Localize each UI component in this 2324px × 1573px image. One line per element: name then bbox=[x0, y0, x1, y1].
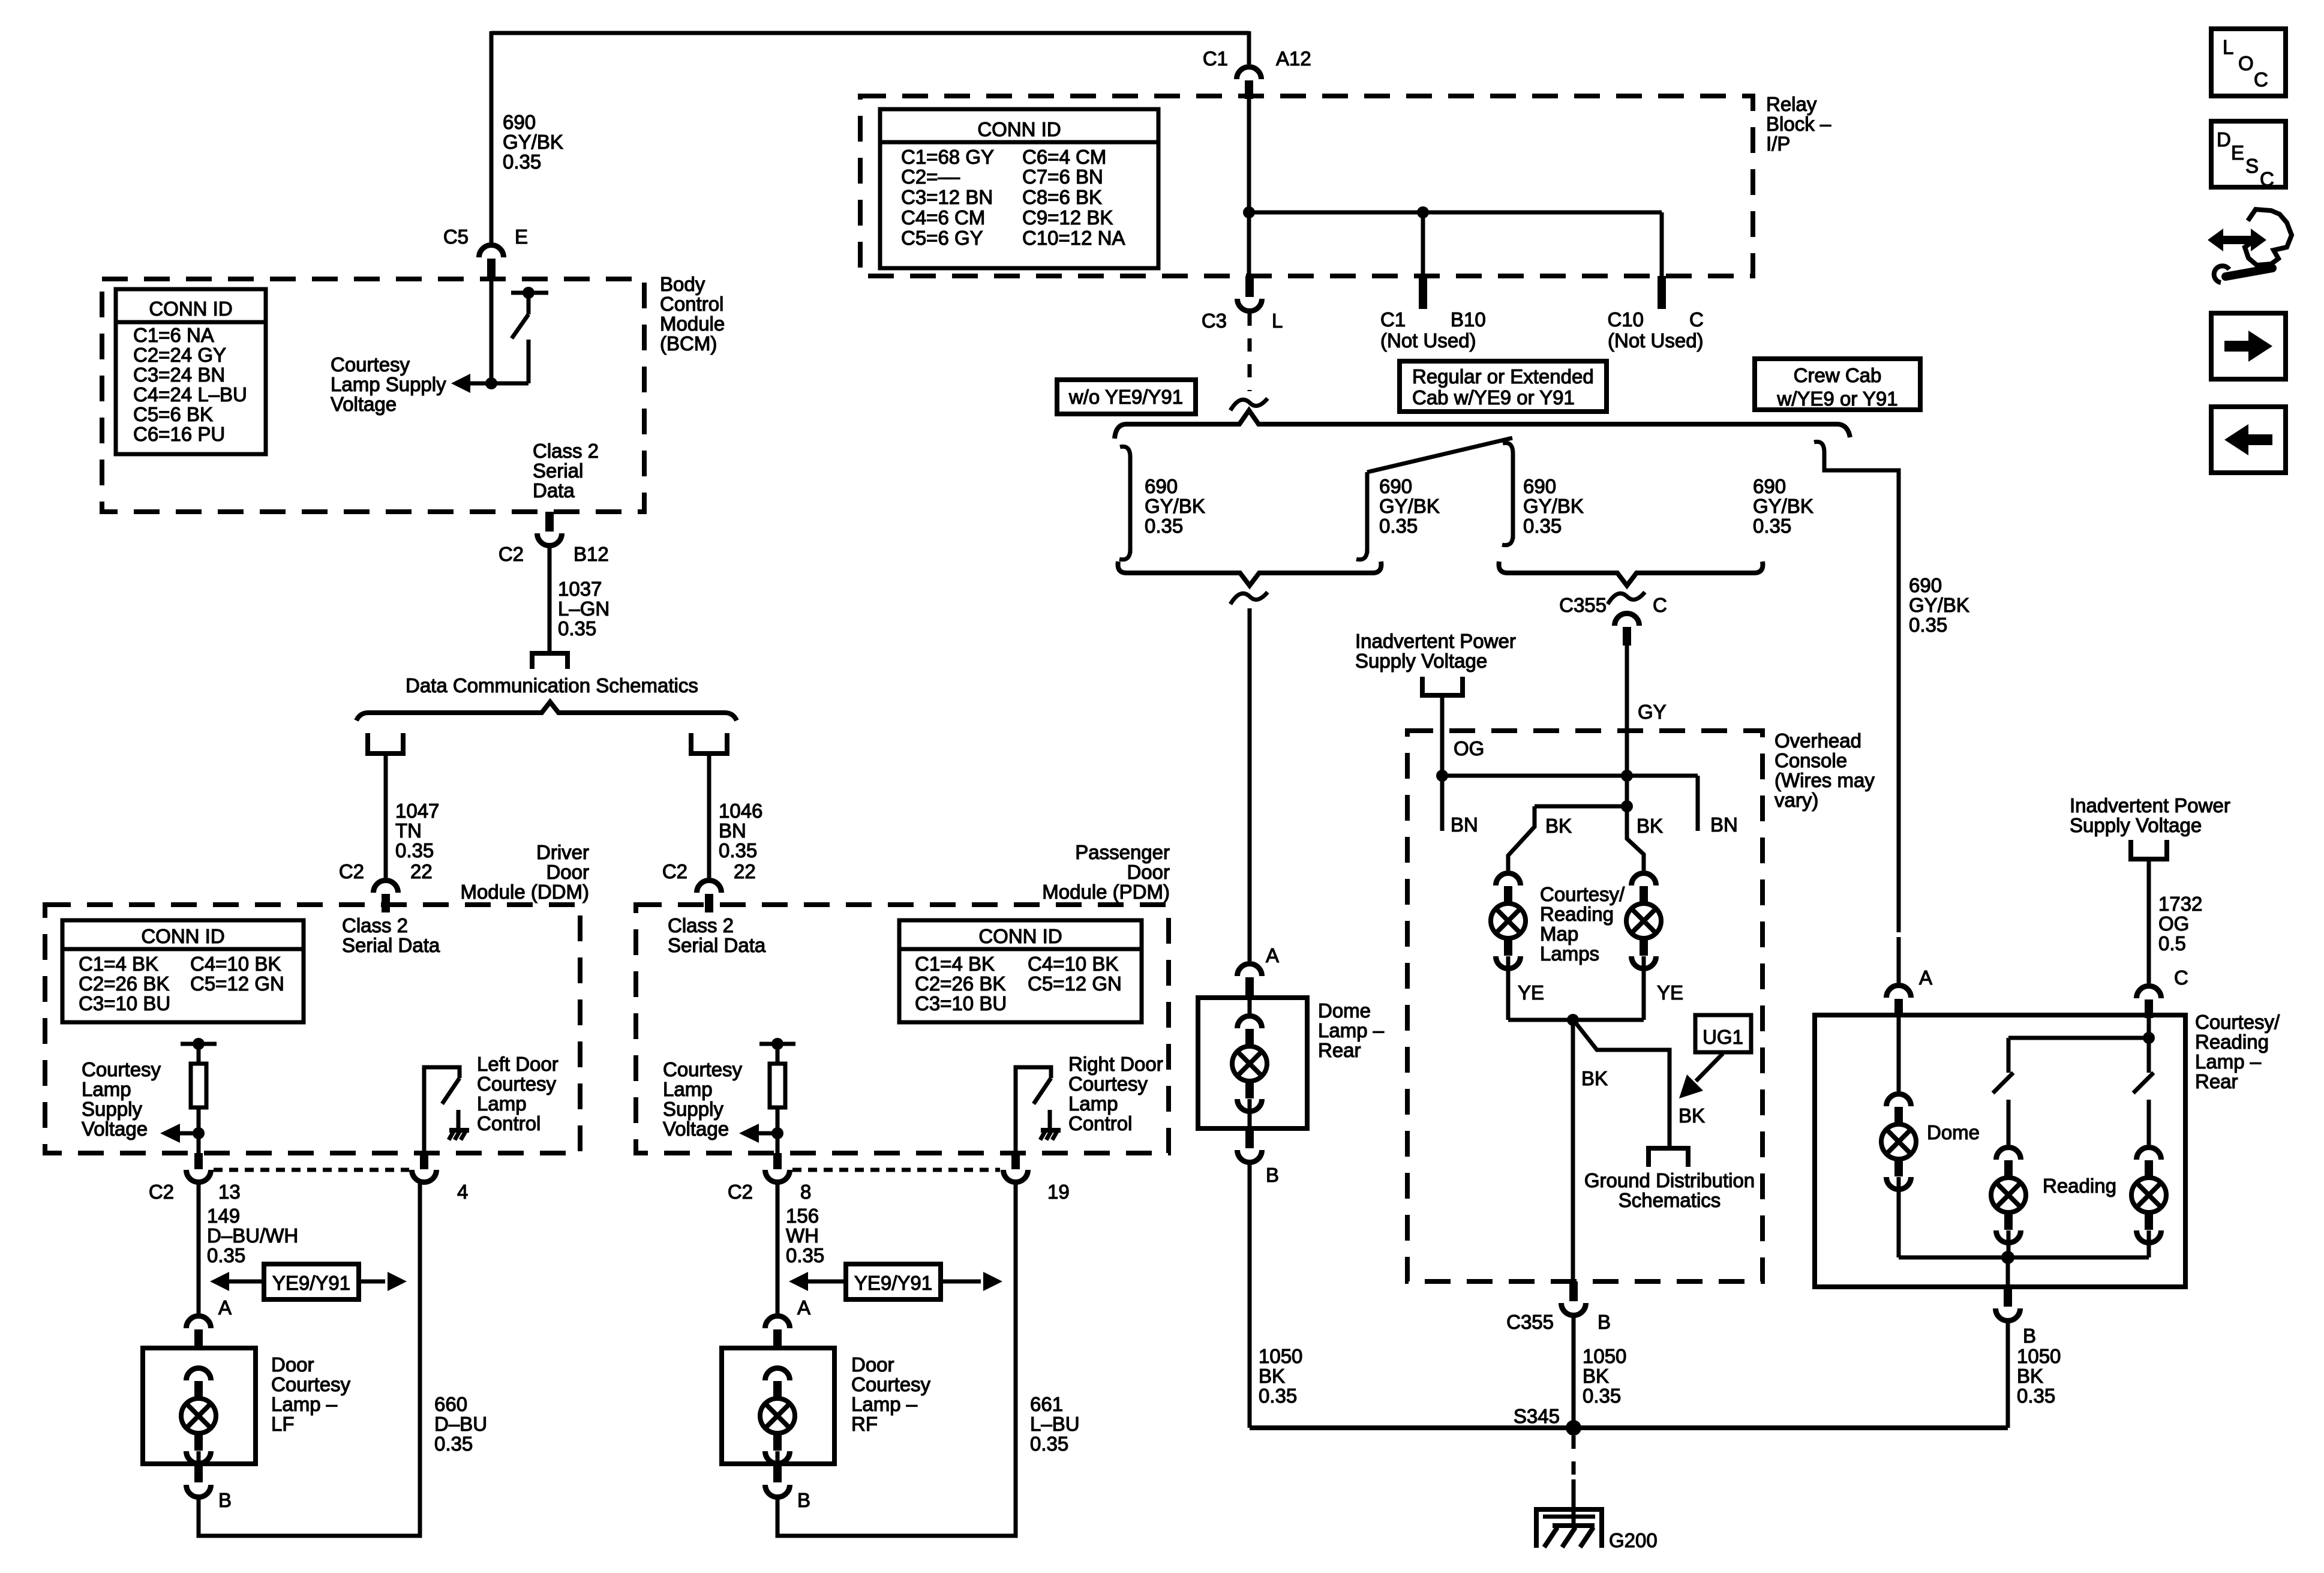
nav icon: DESC box bbox=[2211, 121, 2286, 187]
svg-text:LF: LF bbox=[271, 1413, 295, 1435]
svg-text:A12: A12 bbox=[1276, 47, 1311, 70]
option arrow YE9/Y91 (left) bbox=[264, 1264, 359, 1299]
PDM switch ground stub bbox=[1048, 1110, 1052, 1128]
svg-text:vary): vary) bbox=[1774, 789, 1818, 811]
junction node BK bbox=[1621, 800, 1633, 812]
svg-text:Voltage: Voltage bbox=[663, 1118, 729, 1140]
Door Courtesy Lamp RF box bbox=[722, 1348, 834, 1464]
junction node OG at GY bbox=[1621, 770, 1633, 782]
svg-text:13: 13 bbox=[218, 1181, 241, 1203]
brace: gather YE9 branches (right) bbox=[1499, 562, 1763, 586]
svg-text:L–GN: L–GN bbox=[558, 598, 609, 620]
wire: feed to dome lamp rear bbox=[1248, 608, 1252, 961]
wire GY into overhead console bbox=[1625, 646, 1629, 776]
svg-text:A: A bbox=[1266, 944, 1279, 966]
junction node rear return bbox=[2001, 1251, 2014, 1264]
connector C2 pin 13 (DDM exit) bbox=[194, 1153, 203, 1169]
svg-text:BK: BK bbox=[1679, 1104, 1705, 1127]
lamp: dome (rear unit) bbox=[1887, 1094, 1911, 1107]
svg-text:Passenger: Passenger bbox=[1075, 841, 1170, 863]
svg-text:C2=24 GY: C2=24 GY bbox=[133, 344, 226, 366]
svg-text:Door: Door bbox=[546, 861, 589, 883]
nav icon: next arrow box bbox=[2211, 313, 2286, 379]
svg-text:OG: OG bbox=[2158, 912, 2189, 935]
wire OG feed bbox=[1440, 695, 1445, 776]
svg-text:C355: C355 bbox=[1559, 594, 1607, 616]
svg-text:1046: 1046 bbox=[719, 800, 762, 822]
nav icon: wiring pigtail with arrows bbox=[2245, 209, 2292, 265]
wire: S345 ground bus bbox=[1250, 1425, 2008, 1430]
svg-text:A: A bbox=[1919, 966, 1932, 989]
svg-text:BK: BK bbox=[2017, 1365, 2043, 1387]
wire: relay block internal horizontal bbox=[1249, 211, 1662, 215]
svg-text:19: 19 bbox=[1047, 1181, 1070, 1203]
connector A (dome lamp rear) bbox=[1238, 964, 1262, 977]
junction node (C feed) bbox=[2143, 1032, 2155, 1044]
svg-text:CONN ID: CONN ID bbox=[141, 925, 224, 947]
branch 2 bottom hook bbox=[1356, 550, 1367, 560]
contact reading lamp 1 bbox=[2007, 1100, 2011, 1145]
svg-text:CONN ID: CONN ID bbox=[149, 298, 232, 320]
svg-text:Control: Control bbox=[477, 1112, 541, 1134]
bracket: from data schematics (left branch) bbox=[368, 733, 403, 754]
junction node at arrow bbox=[771, 1127, 783, 1139]
svg-text:(Not Used): (Not Used) bbox=[1608, 329, 1704, 352]
wire: OG bus bbox=[1442, 774, 1698, 778]
wire: BN stub right bbox=[1696, 776, 1700, 831]
svg-text:Courtesy: Courtesy bbox=[477, 1073, 557, 1095]
svg-text:0.35: 0.35 bbox=[395, 839, 434, 861]
svg-text:YE: YE bbox=[1657, 981, 1683, 1004]
lamp: dome rear bbox=[1238, 1016, 1262, 1029]
svg-text:S345: S345 bbox=[1514, 1405, 1560, 1427]
svg-text:BN: BN bbox=[1710, 813, 1738, 836]
svg-text:Lamp: Lamp bbox=[1068, 1092, 1118, 1115]
svg-text:Data: Data bbox=[533, 479, 575, 502]
svg-text:GY: GY bbox=[1638, 701, 1667, 723]
svg-text:0.35: 0.35 bbox=[1909, 614, 1947, 636]
resistor (PDM courtesy lamp driver) bbox=[770, 1064, 785, 1107]
connector C3 pin L (relay block exit) bbox=[1245, 276, 1254, 297]
svg-text:C: C bbox=[2254, 68, 2268, 91]
svg-text:Lamp –: Lamp – bbox=[1318, 1019, 1385, 1041]
svg-text:Rear: Rear bbox=[1318, 1039, 1361, 1061]
svg-text:Reading: Reading bbox=[1540, 903, 1614, 925]
svg-text:L–BU: L–BU bbox=[1030, 1413, 1080, 1435]
svg-text:Serial: Serial bbox=[533, 460, 583, 482]
svg-text:C4=10 BK: C4=10 BK bbox=[1028, 953, 1118, 975]
svg-text:Body: Body bbox=[660, 273, 705, 295]
ground G200 symbol bbox=[1536, 1509, 1602, 1548]
svg-text:Lamp –: Lamp – bbox=[851, 1393, 918, 1415]
bracket: inadvertent power feed (console) bbox=[1422, 677, 1463, 695]
svg-text:C1=4 BK: C1=4 BK bbox=[915, 953, 995, 975]
wire: drop to C10 C bbox=[1660, 212, 1664, 276]
svg-text:C5=12 GN: C5=12 GN bbox=[190, 972, 284, 995]
svg-text:Schematics: Schematics bbox=[1619, 1189, 1721, 1211]
connector pin 4 (DDM exit) bbox=[420, 1153, 428, 1169]
junction node on C5 wire bbox=[485, 377, 497, 389]
svg-text:C5=6 BK: C5=6 BK bbox=[133, 403, 213, 425]
svg-text:Supply Voltage: Supply Voltage bbox=[2070, 814, 2202, 836]
svg-text:C6=4 CM: C6=4 CM bbox=[1022, 146, 1106, 168]
svg-text:C355: C355 bbox=[1506, 1311, 1554, 1333]
svg-text:22: 22 bbox=[734, 860, 756, 882]
svg-text:Module (DDM): Module (DDM) bbox=[460, 881, 589, 903]
svg-text:GY/BK: GY/BK bbox=[1909, 594, 1969, 616]
svg-text:C2: C2 bbox=[728, 1181, 753, 1203]
svg-text:C: C bbox=[2260, 168, 2274, 190]
Courtesy/Reading Lamp Rear box bbox=[1815, 1015, 2185, 1287]
svg-text:L: L bbox=[1272, 310, 1283, 332]
svg-text:0.35: 0.35 bbox=[207, 1244, 245, 1266]
svg-text:CONN ID: CONN ID bbox=[978, 925, 1062, 947]
svg-text:Reading: Reading bbox=[2043, 1175, 2116, 1197]
svg-text:C3=10 BU: C3=10 BU bbox=[79, 992, 170, 1014]
brace: gather w/o YE9 branches bbox=[1118, 562, 1382, 586]
svg-text:Voltage: Voltage bbox=[82, 1118, 148, 1140]
svg-text:C: C bbox=[1689, 308, 1704, 331]
wire: drop to C1 B10 bbox=[1421, 212, 1425, 276]
svg-text:GY/BK: GY/BK bbox=[1753, 495, 1813, 517]
svg-text:E: E bbox=[2231, 142, 2244, 164]
wire: GY to BK node bbox=[1625, 776, 1629, 806]
svg-text:Right Door: Right Door bbox=[1068, 1053, 1163, 1075]
DDM switch chassis ground bbox=[449, 1128, 469, 1133]
svg-text:BK: BK bbox=[1259, 1365, 1285, 1387]
svg-text:GY/BK: GY/BK bbox=[503, 131, 563, 153]
svg-text:0.35: 0.35 bbox=[786, 1244, 824, 1266]
svg-text:0.35: 0.35 bbox=[719, 839, 757, 861]
Overhead Console dashed box bbox=[1407, 731, 1762, 1281]
connector C355 pin B (console exit) bbox=[1569, 1281, 1578, 1301]
svg-text:Control: Control bbox=[1068, 1112, 1132, 1134]
Driver Door Module (DDM) dashed box bbox=[45, 905, 580, 1153]
svg-text:690: 690 bbox=[1379, 475, 1412, 497]
connector C5 (arc + terminal) at BCM bbox=[479, 245, 504, 257]
wire 1037 L-GN to data bracket bbox=[548, 547, 552, 652]
svg-text:C1=4 BK: C1=4 BK bbox=[79, 953, 158, 975]
wire 156 WH bbox=[776, 1182, 780, 1314]
wire 1050 BK (rear lamp ground) bbox=[2006, 1321, 2010, 1428]
connector A (courtesy/reading lamp rear) bbox=[1887, 986, 1911, 998]
wire: BK branch right bbox=[1627, 806, 1644, 870]
branch 4 top hook (crew cab) bbox=[1814, 442, 1824, 452]
svg-text:w/o YE9/Y91: w/o YE9/Y91 bbox=[1068, 386, 1183, 408]
svg-text:w/YE9 or Y91: w/YE9 or Y91 bbox=[1776, 388, 1897, 410]
DDM internal supply node tick bbox=[181, 1042, 217, 1046]
svg-text:L: L bbox=[2223, 36, 2233, 58]
lamp: door courtesy RF bbox=[765, 1368, 790, 1381]
svg-text:0.35: 0.35 bbox=[434, 1433, 473, 1455]
svg-text:UG1: UG1 bbox=[1703, 1026, 1743, 1048]
wire to resistor bbox=[197, 1044, 201, 1064]
wire: rear lamps return bus bbox=[1899, 1256, 2149, 1260]
svg-text:0.35: 0.35 bbox=[1583, 1385, 1621, 1407]
junction node bbox=[1243, 206, 1255, 218]
svg-text:Supply: Supply bbox=[82, 1098, 142, 1120]
svg-text:YE9/Y91: YE9/Y91 bbox=[854, 1272, 932, 1294]
svg-text:Courtesy: Courtesy bbox=[271, 1373, 351, 1395]
svg-text:E: E bbox=[515, 226, 528, 248]
svg-text:Lamp Supply: Lamp Supply bbox=[331, 373, 446, 395]
svg-text:GY/BK: GY/BK bbox=[1379, 495, 1440, 517]
wire: feed across to reading switch 1 bbox=[2008, 1038, 2149, 1073]
UG1 option box bbox=[1695, 1015, 1751, 1052]
svg-text:Class 2: Class 2 bbox=[533, 440, 599, 462]
connector A (door courtesy lamp LF) bbox=[187, 1316, 211, 1328]
brace: data communication expansion bbox=[356, 702, 737, 721]
svg-text:RF: RF bbox=[851, 1413, 878, 1435]
svg-text:C8=6 BK: C8=6 BK bbox=[1022, 186, 1102, 208]
connector C2 pin 8 (PDM exit) bbox=[773, 1153, 782, 1169]
svg-text:BN: BN bbox=[1451, 813, 1478, 836]
svg-text:(BCM): (BCM) bbox=[660, 332, 717, 355]
break symbol on option feed bbox=[1230, 398, 1268, 410]
svg-text:Driver: Driver bbox=[536, 841, 589, 863]
svg-text:Courtesy: Courtesy bbox=[82, 1058, 161, 1080]
svg-text:1047: 1047 bbox=[395, 800, 439, 822]
svg-text:C1=68 GY: C1=68 GY bbox=[901, 146, 994, 168]
wire: BCM internal from C5 to courtesy output node bbox=[490, 277, 494, 383]
wire: vertical drop to BCM connector C5 bbox=[490, 31, 494, 243]
break symbol (C355 feed) bbox=[1608, 592, 1645, 604]
svg-text:Serial Data: Serial Data bbox=[668, 934, 766, 956]
svg-text:0.35: 0.35 bbox=[1379, 515, 1418, 537]
wire: A feed to dome lamp bbox=[1897, 1017, 1901, 1091]
BCM switch lower contact bbox=[527, 340, 531, 383]
wire: top feed 690 GY/BK from BCM C5 to Relay Block C1 bbox=[491, 31, 1249, 35]
svg-text:G200: G200 bbox=[1609, 1529, 1658, 1551]
option label box: w/o YE9/Y91 bbox=[1057, 380, 1196, 414]
terminal C10 C (not used) bbox=[1658, 276, 1666, 309]
junction node OG left bbox=[1436, 770, 1448, 782]
svg-text:Class 2: Class 2 bbox=[668, 914, 734, 936]
wire gap on crew cab drop bbox=[1894, 932, 1903, 937]
lamp: courtesy/reading map lamp right bbox=[1632, 873, 1656, 886]
svg-text:Courtesy: Courtesy bbox=[851, 1373, 931, 1395]
svg-text:Courtesy: Courtesy bbox=[1068, 1073, 1148, 1095]
svg-text:1050: 1050 bbox=[2017, 1345, 2061, 1367]
BCM CONN ID table bbox=[116, 289, 266, 454]
wire: relay block internal vertical bbox=[1247, 99, 1251, 276]
PDM door switch blade (open) bbox=[1034, 1078, 1051, 1104]
svg-text:BK: BK bbox=[1545, 815, 1572, 837]
wire 1050 BK (dome rear ground) bbox=[1248, 1163, 1252, 1428]
svg-text:660: 660 bbox=[434, 1393, 467, 1415]
wire branch 2 690 GY/BK bbox=[1365, 472, 1370, 553]
svg-text:Inadvertent Power: Inadvertent Power bbox=[1355, 630, 1516, 652]
svg-text:Reading: Reading bbox=[2195, 1031, 2269, 1053]
svg-text:1037: 1037 bbox=[558, 578, 602, 600]
wire 149 D-BU/WH bbox=[197, 1182, 201, 1314]
svg-text:C4=6 CM: C4=6 CM bbox=[901, 206, 985, 229]
svg-text:TN: TN bbox=[395, 819, 422, 842]
wire: crew cab drop lower part bbox=[1897, 937, 1901, 983]
svg-text:C3=12 BN: C3=12 BN bbox=[901, 186, 993, 208]
wire 1047 TN to DDM bbox=[384, 755, 388, 878]
svg-text:C6=16 PU: C6=16 PU bbox=[133, 423, 225, 445]
svg-text:0.5: 0.5 bbox=[2158, 932, 2186, 954]
svg-text:Dome: Dome bbox=[1927, 1121, 1980, 1143]
svg-text:C9=12 BK: C9=12 BK bbox=[1022, 206, 1113, 229]
svg-text:690: 690 bbox=[1523, 475, 1556, 497]
svg-text:Data Communication Schematics: Data Communication Schematics bbox=[406, 674, 698, 697]
PDM CONN ID table bbox=[899, 920, 1142, 1022]
svg-text:I/P: I/P bbox=[1766, 133, 1790, 155]
svg-text:C1: C1 bbox=[1380, 308, 1406, 331]
svg-text:690: 690 bbox=[1145, 475, 1178, 497]
svg-text:Map: Map bbox=[1540, 923, 1578, 945]
svg-text:Door: Door bbox=[851, 1353, 894, 1376]
contact reading lamp 2 bbox=[2147, 1100, 2151, 1145]
svg-text:Console: Console bbox=[1774, 749, 1847, 772]
arrow: Courtesy Lamp Supply Voltage bbox=[451, 374, 470, 393]
svg-text:Courtesy: Courtesy bbox=[663, 1058, 743, 1080]
svg-text:Courtesy/: Courtesy/ bbox=[1540, 883, 1625, 905]
svg-text:A: A bbox=[218, 1296, 232, 1319]
svg-text:C2: C2 bbox=[339, 860, 364, 882]
wire: BK ground drop bbox=[1571, 1020, 1575, 1281]
svg-text:A: A bbox=[797, 1296, 810, 1319]
svg-text:0.35: 0.35 bbox=[503, 151, 541, 173]
svg-text:Regular or Extended: Regular or Extended bbox=[1412, 365, 1594, 388]
svg-text:B: B bbox=[797, 1489, 810, 1511]
nav icon: previous arrow box bbox=[2211, 407, 2286, 473]
lamp: reading 1 bbox=[1996, 1147, 2021, 1160]
svg-text:Voltage: Voltage bbox=[331, 393, 397, 415]
svg-text:D–BU: D–BU bbox=[434, 1413, 487, 1435]
svg-text:Lamps: Lamps bbox=[1540, 942, 1599, 965]
wire into dome lamp bbox=[1248, 998, 1252, 1014]
svg-text:Courtesy: Courtesy bbox=[331, 353, 410, 376]
bracket: inadvertent power feed (right) bbox=[2131, 840, 2167, 859]
connector C355 pin C (arc + terminal) bbox=[1615, 614, 1640, 626]
svg-text:1050: 1050 bbox=[1259, 1345, 1302, 1367]
Relay Block I/P dashed box bbox=[860, 96, 1753, 276]
svg-text:C3=10 BU: C3=10 BU bbox=[915, 992, 1007, 1014]
svg-text:GY/BK: GY/BK bbox=[1145, 495, 1205, 517]
wire to resistor bbox=[776, 1044, 780, 1064]
svg-text:Lamp: Lamp bbox=[82, 1078, 131, 1100]
wire resistor to exit C2 pin 8 bbox=[776, 1107, 780, 1153]
nav icon: LOC box bbox=[2211, 29, 2286, 96]
svg-text:Crew Cab: Crew Cab bbox=[1794, 364, 1882, 386]
junction node bbox=[1417, 206, 1429, 218]
svg-text:C1: C1 bbox=[1203, 47, 1228, 70]
svg-text:C3=24 BN: C3=24 BN bbox=[133, 364, 225, 386]
option label box: Crew Cab w/YE9 or Y91 bbox=[1755, 359, 1920, 410]
svg-text:Overhead: Overhead bbox=[1774, 730, 1861, 752]
svg-text:C2=––: C2=–– bbox=[901, 166, 960, 188]
svg-text:B: B bbox=[1598, 1311, 1611, 1333]
connector body dashed link (PDM C2) bbox=[792, 1168, 1000, 1172]
svg-text:Module: Module bbox=[660, 313, 725, 335]
svg-text:B10: B10 bbox=[1451, 308, 1486, 331]
svg-text:1732: 1732 bbox=[2158, 893, 2202, 915]
lamp: reading 2 bbox=[2137, 1147, 2161, 1160]
Dome Lamp Rear box bbox=[1198, 998, 1307, 1128]
svg-text:C1=6 NA: C1=6 NA bbox=[133, 324, 214, 346]
svg-text:C: C bbox=[2174, 966, 2188, 989]
wire 1046 BN to PDM bbox=[707, 755, 711, 878]
wire: BN stub left bbox=[1440, 776, 1445, 831]
svg-text:B: B bbox=[2023, 1325, 2036, 1347]
terminal C1 B10 (not used) bbox=[1419, 276, 1427, 309]
svg-text:0.35: 0.35 bbox=[1030, 1433, 1068, 1455]
svg-text:690: 690 bbox=[1753, 475, 1786, 497]
arrow: Courtesy Lamp Supply Voltage (DDM) bbox=[180, 1131, 199, 1136]
connector B (LF lamp exit) bbox=[194, 1464, 203, 1482]
break symbol (dome lamp feed) bbox=[1230, 592, 1268, 604]
lamp: door courtesy LF bbox=[187, 1368, 211, 1381]
svg-text:BK: BK bbox=[1637, 815, 1663, 837]
resistor (DDM courtesy lamp driver) bbox=[191, 1064, 206, 1107]
PDM switch chassis ground bbox=[1041, 1128, 1061, 1133]
svg-text:0.35: 0.35 bbox=[1145, 515, 1183, 537]
wire: RF lamp return loop bbox=[777, 1182, 1016, 1536]
svg-text:(Wires may: (Wires may bbox=[1774, 769, 1875, 791]
bracket: to Data Communication Schematics bbox=[532, 653, 568, 669]
svg-text:Supply: Supply bbox=[663, 1098, 723, 1120]
svg-text:C: C bbox=[1653, 594, 1667, 616]
switch blade reading lamp 2 bbox=[2133, 1073, 2154, 1093]
connector pin 19 (PDM exit) bbox=[1011, 1153, 1020, 1169]
wire: BK branch left bbox=[1508, 806, 1627, 870]
svg-text:D: D bbox=[2217, 128, 2231, 151]
option bus line with feed notch bbox=[1115, 410, 1850, 439]
Relay Block CONN ID table bbox=[880, 109, 1158, 268]
svg-text:OG: OG bbox=[1454, 737, 1484, 760]
svg-text:D–BU/WH: D–BU/WH bbox=[207, 1224, 298, 1247]
branch 1 (w/o YE9/Y91) top hook bbox=[1120, 446, 1130, 457]
svg-text:Door: Door bbox=[1127, 861, 1170, 883]
svg-text:CONN ID: CONN ID bbox=[977, 118, 1061, 140]
lamp: courtesy/reading map lamp left bbox=[1496, 873, 1521, 886]
svg-text:Left Door: Left Door bbox=[477, 1053, 559, 1075]
svg-text:BK: BK bbox=[1583, 1365, 1609, 1387]
svg-text:C2: C2 bbox=[149, 1181, 174, 1203]
connector body dashed link (DDM C2) bbox=[214, 1168, 409, 1172]
svg-text:C5=6 GY: C5=6 GY bbox=[901, 227, 983, 249]
svg-text:Class 2: Class 2 bbox=[342, 914, 408, 936]
svg-text:O: O bbox=[2238, 52, 2254, 74]
wire 1732 OG bbox=[2147, 859, 2151, 983]
svg-text:Cab w/YE9 or Y91: Cab w/YE9 or Y91 bbox=[1412, 386, 1575, 409]
bracket: to Ground Distribution Schematics bbox=[1649, 1148, 1688, 1167]
svg-text:22: 22 bbox=[410, 860, 433, 882]
svg-text:0.35: 0.35 bbox=[2017, 1385, 2055, 1407]
wire: switch 2 drop bbox=[2147, 1038, 2151, 1073]
bracket: from data schematics (right branch) bbox=[691, 733, 727, 754]
wire resistor to exit C2 pin 13 bbox=[197, 1107, 201, 1153]
BCM switch control tick bbox=[511, 291, 548, 295]
DDM door switch blade (open) bbox=[442, 1078, 460, 1104]
wire branch 1 690 GY/BK bbox=[1128, 456, 1133, 553]
svg-text:Lamp: Lamp bbox=[477, 1092, 527, 1115]
connector A (door courtesy lamp RF) bbox=[765, 1316, 790, 1328]
svg-text:Courtesy/: Courtesy/ bbox=[2195, 1011, 2280, 1033]
wire: drop to relay block C1 A12 bbox=[1247, 31, 1251, 64]
svg-text:C2: C2 bbox=[499, 543, 524, 565]
svg-text:YE: YE bbox=[1518, 981, 1544, 1004]
wire: dashed drop to G200 bbox=[1572, 1436, 1576, 1479]
svg-text:C10: C10 bbox=[1607, 308, 1644, 331]
svg-text:4: 4 bbox=[457, 1181, 468, 1203]
svg-text:690: 690 bbox=[503, 111, 536, 133]
wire to B exit bbox=[2006, 1257, 2010, 1287]
junction node YE bbox=[1567, 1014, 1579, 1026]
